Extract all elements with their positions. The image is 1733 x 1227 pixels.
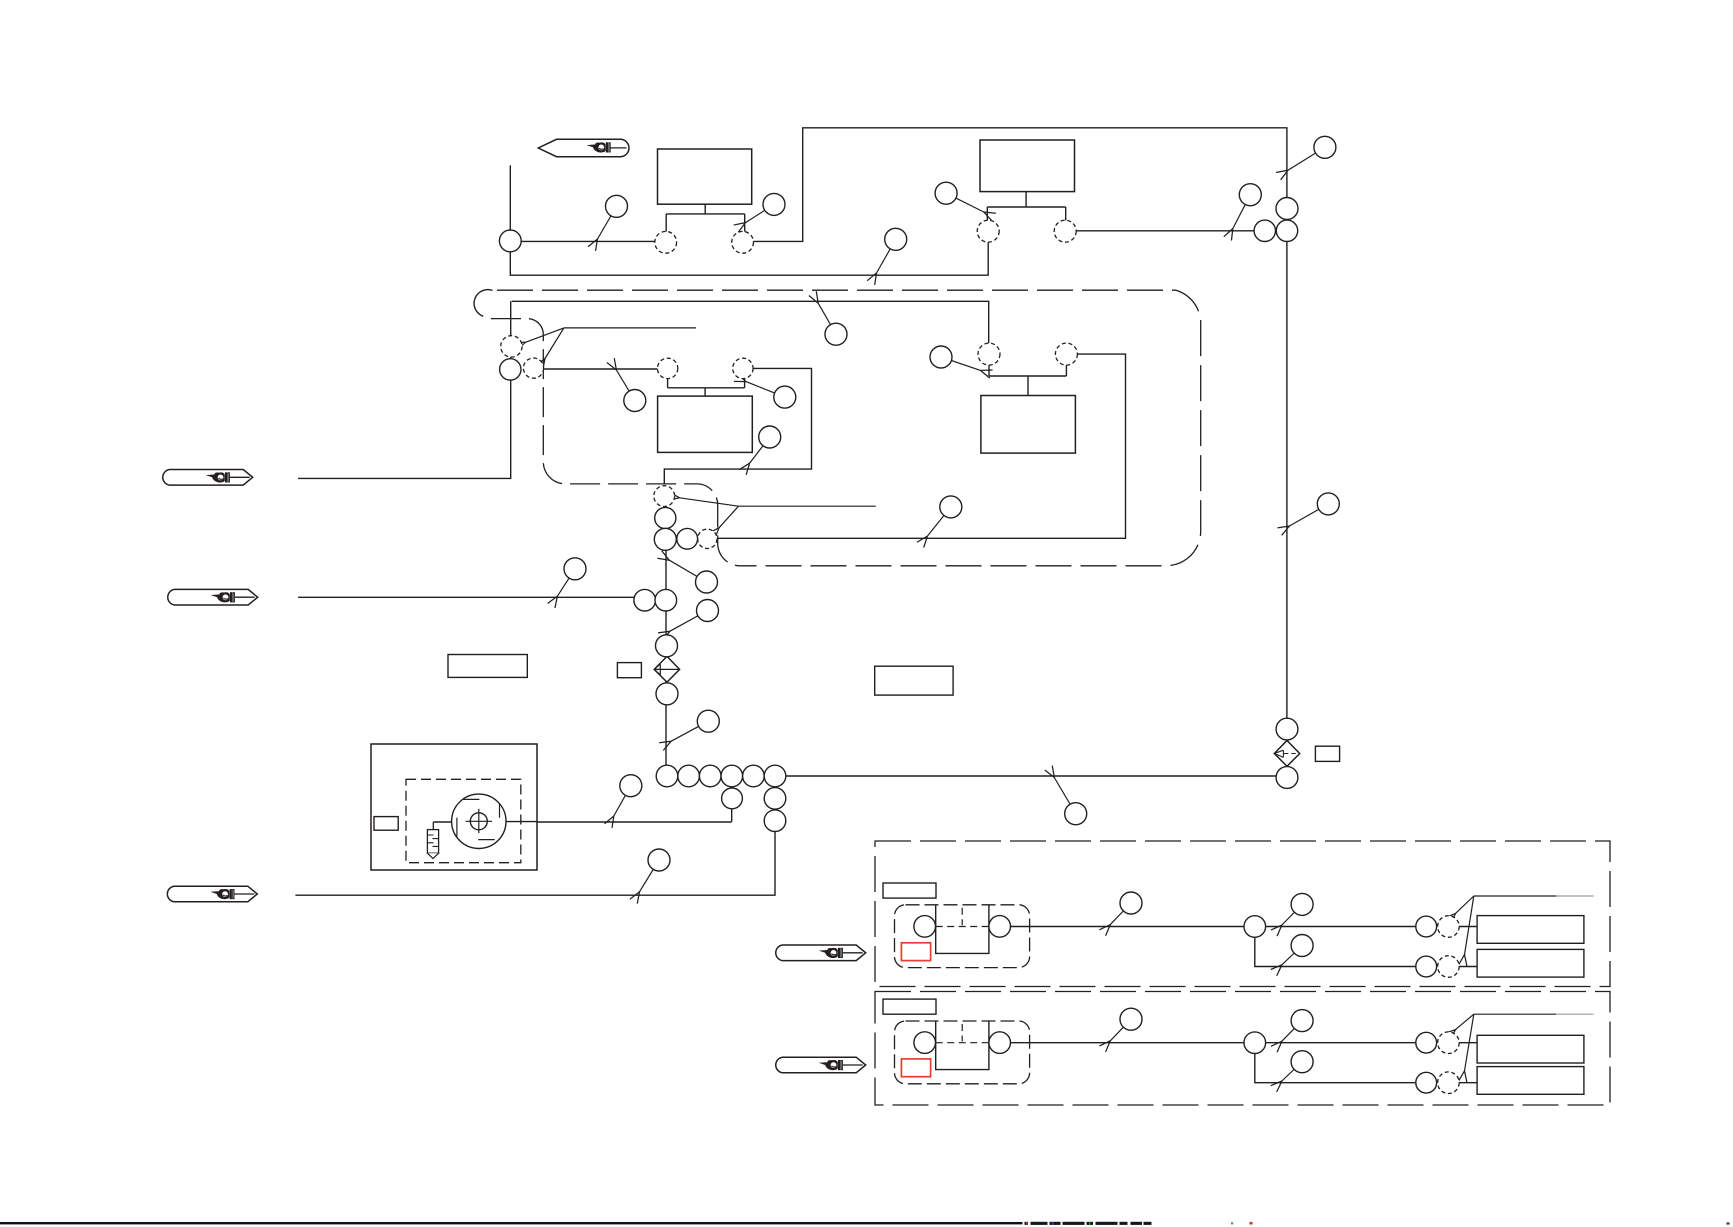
callout 5 at grommet cluster balloon [1239, 184, 1261, 206]
small rect label left of valve [617, 663, 641, 678]
detail B label box [883, 999, 936, 1014]
grommet row 5 [743, 765, 765, 787]
wire: upper-left harness run to clamp [510, 165, 655, 241]
wire: clamp cluster chain down through valve column [665, 497, 667, 766]
grommet row 6 [764, 765, 786, 787]
clamp on box 2 left lead [977, 220, 999, 242]
frame outline (long-dash chain line with end hook) [474, 290, 1201, 566]
detail A rounded connector housing [895, 905, 1030, 968]
callout 4 on right vertical top arrow [1288, 147, 1325, 170]
callout 9 at box 3 right lead arrow [746, 382, 785, 398]
callout 17 on valve column lower balloon [697, 710, 719, 732]
callout 3 at box 2 left lead balloon [935, 182, 957, 204]
detail A connector label rect upper [1477, 916, 1584, 944]
callout 8 on harness line balloon [624, 390, 646, 412]
callout 12 on right vertical mid balloon [1317, 493, 1339, 515]
callout 5 at grommet cluster arrow [1233, 195, 1251, 229]
clamp on box 1 left lead [655, 231, 677, 253]
callout A1 on detail A line arrow [1110, 903, 1131, 925]
callout A1 on detail A line balloon [1120, 892, 1142, 914]
grommet row 4 [721, 765, 743, 787]
wire: component box 1 leads to clamps [666, 204, 745, 232]
grommet right vertical upper [1276, 198, 1298, 220]
hand symbol 2 pointing right (left, upper) [163, 470, 253, 486]
callout B2 at detail B junction arrow [1282, 1021, 1302, 1042]
callout 4 on right vertical top balloon [1314, 136, 1336, 158]
fuel pump assembly [371, 744, 538, 870]
grommet detail B junction [1244, 1032, 1266, 1054]
callout 19 on hand leader 4 arrow [640, 860, 660, 892]
detail B connector dashed outline [936, 1024, 989, 1043]
hand symbol 1 pointing left (top) [538, 139, 629, 156]
callout 18 on grommet row run arrow [1054, 778, 1075, 814]
detail box A dashed border [875, 841, 1610, 987]
detail B connector label rect lower [1477, 1067, 1584, 1095]
callout 10 on box 3 loop balloon [759, 426, 781, 448]
callout 14 on hand leader 3 arrow [557, 569, 575, 596]
detail B leader line to connectors [1456, 1014, 1594, 1071]
grommet row 3 [699, 765, 721, 787]
grommet cluster left [1254, 220, 1275, 241]
callout 9 at box 3 right lead balloon [774, 386, 796, 408]
detail A branch lead wire [1255, 937, 1477, 966]
component box 1 top left [658, 149, 752, 204]
callout 13 on lower long run arrow [927, 507, 950, 536]
callout 15 on valve column upper balloon [696, 571, 718, 593]
callout 7 on long middle run balloon [825, 323, 847, 345]
detail A connector label rect lower [1477, 949, 1584, 977]
grommet detail B housing left [914, 1032, 936, 1054]
callout 1 on upper-left run arrow [598, 206, 617, 239]
callout 16 on valve column mid balloon [697, 600, 719, 622]
bottom cut-off text fragments [1025, 1222, 1730, 1225]
wire: hand leader 3 [298, 596, 634, 598]
callout A3 on detail A branch arrow [1282, 946, 1302, 965]
clamp on box 2 right lead [1054, 220, 1076, 242]
wire: box 4 right clamp down to long lower run [717, 354, 1125, 538]
grommet detail A junction [1244, 916, 1266, 938]
grommet detail A main end [1416, 916, 1437, 937]
grommet detail B housing right [989, 1032, 1011, 1054]
clamp upper of left pair [501, 336, 522, 357]
grommet cluster on vertical [1276, 220, 1297, 241]
grommet detail A housing right [989, 916, 1011, 938]
clamp detail A main [1438, 916, 1460, 938]
component box 2 top right [980, 140, 1075, 192]
grommet right column upper [764, 788, 786, 810]
wire: right grommet column down to hand leader 4 [295, 776, 775, 895]
one-way valve right [1274, 741, 1299, 767]
callout A2 at detail A junction balloon [1291, 893, 1313, 915]
detail A red highlight box [901, 943, 930, 961]
wire: fuel pump outlet hose [433, 787, 731, 822]
detail A connector solid U [936, 905, 989, 953]
callout 7 on long middle run arrow [818, 303, 836, 334]
callout 11 at box 4 left lead arrow [941, 357, 981, 370]
callout 15 on valve column upper arrow [669, 560, 706, 582]
grommet upper left [499, 230, 521, 252]
clamp top of middle cluster [654, 486, 675, 507]
callout B3 on detail B branch balloon [1291, 1051, 1313, 1073]
detail B red highlight box [901, 1059, 930, 1077]
grommet below right valve [1276, 767, 1298, 789]
wire: long run to box 4 left clamp [512, 301, 989, 343]
grommet row 1 [656, 765, 678, 787]
callout 14 on hand leader 3 balloon [564, 558, 586, 580]
callout 20 on pump outlet hose balloon [620, 775, 642, 797]
grommet row 2 [678, 765, 700, 787]
detail B branch lead wire [1255, 1054, 1477, 1083]
clamp lower of left pair [523, 358, 543, 378]
hand symbol 5 pointing right (detail A) [776, 945, 866, 961]
grommet detail B main end [1416, 1032, 1437, 1053]
clamp on box 4 right lead [1055, 343, 1077, 365]
hand symbol 4 pointing right (left, lower) [167, 886, 257, 902]
wire: component box 3 leads to clamps [668, 379, 745, 397]
component box 3 middle left [658, 396, 753, 452]
clamp on box 3 left lead [657, 358, 677, 378]
detail B connector solid U [936, 1022, 989, 1070]
wire: harness between left clamp pair and box 3 clamps [534, 368, 668, 370]
callout 13 on lower long run balloon [940, 496, 962, 518]
callout B2 at detail B junction balloon [1291, 1010, 1313, 1032]
grommet below left valve [656, 683, 678, 705]
detail B connector label rect upper [1477, 1035, 1584, 1063]
wire: grommet row to right valve assembly [786, 775, 1277, 777]
callout 6 on lower loop run arrow [877, 239, 896, 273]
label box left [448, 655, 527, 678]
grommet on hand leader 3 left [634, 589, 656, 611]
hand symbol 6 pointing right (detail B) [776, 1057, 866, 1073]
small rect label right of valve [1315, 746, 1339, 761]
callout 18 on grommet row run balloon [1065, 803, 1087, 825]
clamp on box 1 right lead [732, 231, 754, 253]
grommet detail A housing left [914, 916, 936, 938]
callout 16 on valve column mid arrow [670, 611, 708, 632]
wire: clamp to top edge and main right vertical run [753, 128, 1287, 718]
grommet detail A branch end [1416, 956, 1437, 977]
detail B main lead wire [1010, 1042, 1477, 1044]
callout 8 on harness line arrow [616, 370, 634, 401]
grommet middle cluster 1 [655, 507, 676, 528]
clamp right of middle cluster [698, 529, 717, 548]
callout 6 on lower loop run balloon [885, 228, 907, 250]
grommet right column lower [764, 810, 786, 832]
callout B1 on detail B line arrow [1110, 1019, 1131, 1041]
callout 1 on upper-left run balloon [606, 195, 628, 217]
detail box B dashed border [875, 992, 1610, 1106]
detail A main lead wire [1010, 926, 1477, 928]
callout A3 on detail A branch balloon [1291, 935, 1313, 957]
detail A connector dashed outline [936, 908, 989, 927]
clamp detail B branch [1438, 1072, 1460, 1094]
detail A leader line to connectors [1456, 896, 1594, 955]
grommet above right valve [1276, 718, 1298, 740]
component box 4 middle right [981, 396, 1076, 454]
callout 20 on pump outlet hose arrow [614, 786, 631, 816]
callout 19 on hand leader 4 balloon [648, 849, 670, 871]
grommet middle cluster 2 [654, 528, 676, 550]
callout A2 at detail A junction arrow [1282, 904, 1302, 925]
clamp detail A branch [1438, 956, 1460, 978]
callout 17 on valve column lower arrow [671, 721, 708, 741]
grommet below row on pump riser [722, 788, 743, 809]
wire: box 3 right clamp loop down to frame notch [664, 368, 811, 484]
grommet detail B branch end [1416, 1072, 1437, 1093]
clamp on box 4 left lead [978, 343, 1000, 365]
clamp on box 3 right lead [733, 358, 753, 378]
wire: loop from left grommet across to box 2 left clamp [510, 242, 988, 275]
wire: box 2 right clamp to grommet cluster [1076, 230, 1254, 232]
callout 12 on right vertical mid arrow [1289, 504, 1328, 526]
leader line to clamp pair middle cluster [680, 498, 876, 528]
callout B3 on detail B branch arrow [1282, 1062, 1302, 1081]
detail B rounded connector housing [895, 1021, 1030, 1084]
wire: component box 4 leads to clamps [989, 365, 1066, 396]
leader line to clamp pair upper-left [526, 328, 697, 359]
bottom page rule [0, 1222, 1023, 1224]
hand symbol 3 pointing right (left, middle) [168, 589, 258, 605]
detail A label box [883, 883, 936, 898]
grommet below left clamp pair [500, 359, 521, 380]
grommet on hand leader 3 right [655, 589, 677, 611]
callout 2 at box 1 right lead balloon [763, 193, 785, 215]
callout 10 on box 3 loop arrow [750, 437, 770, 463]
callout B1 on detail B line balloon [1120, 1008, 1142, 1030]
grommet middle cluster 3 [677, 528, 698, 549]
callout 11 at box 4 left lead balloon [930, 346, 952, 368]
label box right [875, 666, 953, 695]
clamp detail B main [1438, 1032, 1460, 1054]
callout 2 at box 1 right lead arrow [746, 204, 775, 222]
callout 3 at box 2 left lead arrow [946, 193, 984, 212]
wire: component box 2 leads to clamps [987, 192, 1065, 221]
wire: left clamp chain vertical to hand leader 2 [298, 301, 511, 478]
grommet above left valve [656, 635, 678, 657]
one-way valve left [654, 656, 679, 682]
